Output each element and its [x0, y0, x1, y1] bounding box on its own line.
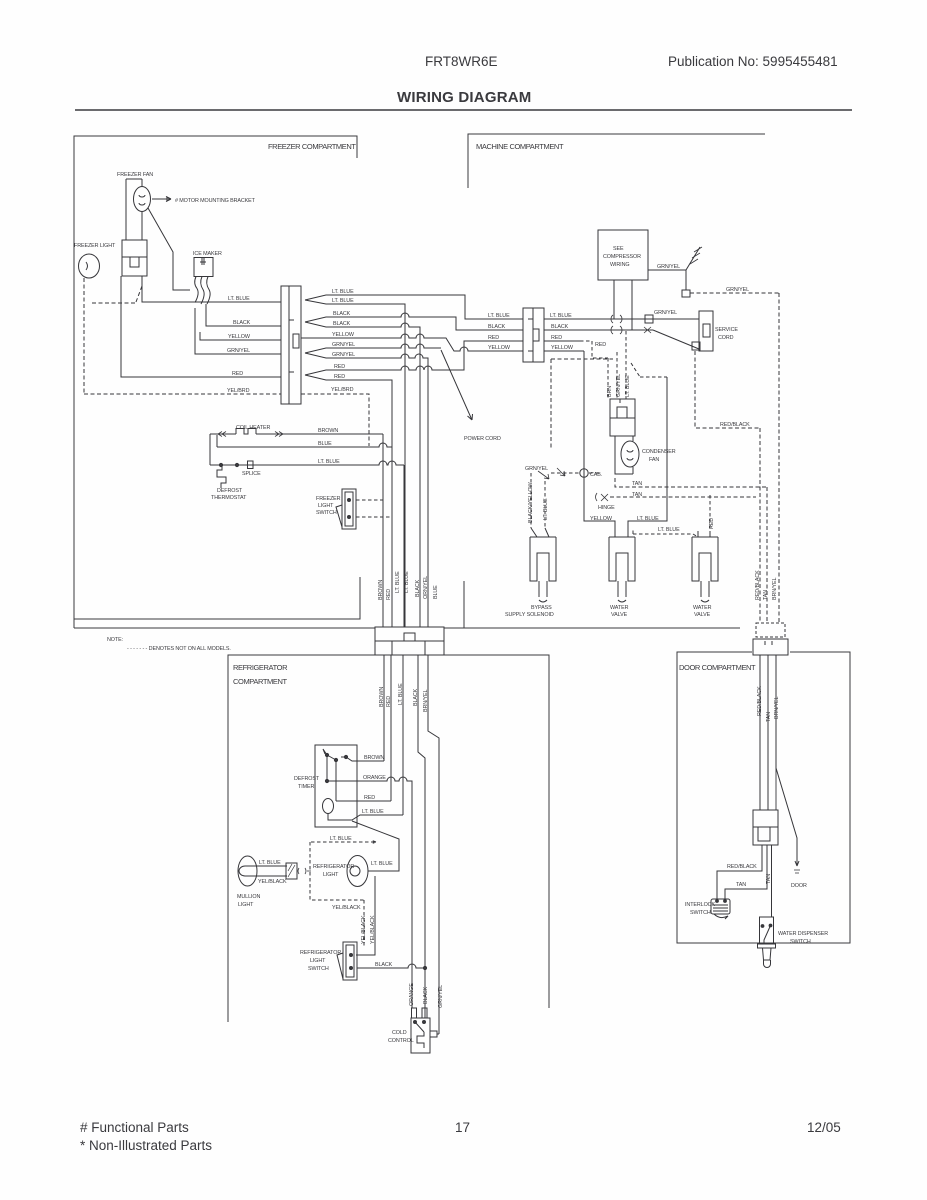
machine compartment box: [444, 134, 765, 628]
svg-text:BLACK: BLACK: [488, 324, 506, 330]
splice S1: [248, 461, 254, 469]
wire freezer light dashed to lt.blue: [92, 286, 142, 303]
wire red 1 riser to machine connector: [305, 341, 523, 375]
svg-text:BLACK: BLACK: [415, 579, 421, 597]
wire brn/yel to mid connector: [775, 768, 777, 810]
wire lt.blue bus freezer: [142, 276, 281, 302]
svg-text:RED: RED: [551, 335, 562, 341]
svg-text:LT. BLUE: LT. BLUE: [404, 571, 410, 593]
wire tan door drop: [767, 655, 769, 810]
refrigerator light switch SW2: [343, 942, 357, 980]
svg-text:BROWN: BROWN: [364, 755, 384, 761]
ice maker block: [194, 258, 213, 277]
wire ground drop: [685, 270, 687, 290]
svg-text:CORD: CORD: [718, 335, 734, 341]
svg-text:WATER: WATER: [610, 605, 629, 611]
wire compressor leads: [614, 280, 632, 330]
svg-text:BLACK: BLACK: [413, 688, 419, 706]
refrigerator compartment box: [228, 655, 549, 1022]
wire lt.blue dashed to timer: [625, 331, 627, 399]
svg-text:BROWN: BROWN: [318, 428, 338, 434]
freezer compartment box: [74, 136, 375, 628]
svg-text:RED: RED: [709, 518, 715, 529]
svg-text:BLACK: BLACK: [375, 962, 393, 968]
svg-text:YELLOW: YELLOW: [332, 332, 355, 338]
wire red drop refrigerator: [390, 655, 392, 801]
door connector J4: [753, 639, 788, 655]
wire brown drop from coil: [382, 434, 384, 627]
svg-text:SUPPLY SOLENOID: SUPPLY SOLENOID: [505, 612, 554, 618]
svg-text:LT. BLUE: LT. BLUE: [330, 836, 352, 842]
svg-text:SEE: SEE: [613, 246, 624, 252]
water valve 2 coil: [692, 537, 718, 602]
svg-text:YEL/BRD: YEL/BRD: [331, 387, 354, 393]
hinge symbol: [596, 493, 609, 501]
wire grn/yel 2 drop: [305, 353, 428, 627]
wire lt.blue dashed valve3: [633, 528, 698, 537]
svg-text:FREEZER COMPARTMENT: FREEZER COMPARTMENT: [268, 142, 356, 151]
motor mounting bracket pointer: [152, 197, 171, 202]
wire lt.blue drop joins: [403, 465, 405, 627]
wire lt.blue row thermostat: [210, 461, 404, 465]
wire grn/yel compressor ground: [648, 247, 700, 270]
svg-text:TIMER: TIMER: [298, 784, 314, 790]
grn/yel tag connector: [645, 315, 653, 323]
svg-text:ORN/YEL: ORN/YEL: [423, 576, 429, 599]
svg-text:YEL/BRD: YEL/BRD: [227, 388, 250, 394]
svg-text:GRN/YEL: GRN/YEL: [657, 264, 680, 270]
wire bulb dashed link: [298, 868, 311, 874]
svg-text:YELLOW: YELLOW: [488, 345, 511, 351]
svg-text:FRT8WR6E: FRT8WR6E: [425, 54, 498, 69]
wire black drop refrigerator: [418, 655, 425, 1018]
svg-text:CONTROL: CONTROL: [388, 1038, 414, 1044]
svg-text:YEL/BLACK: YEL/BLACK: [332, 905, 361, 911]
timer motor M3: [323, 799, 334, 814]
svg-text:LT. BLUE: LT. BLUE: [318, 459, 340, 465]
freezer light switch SW1: [342, 489, 356, 529]
svg-text:BRN/YEL: BRN/YEL: [772, 578, 778, 600]
wire dashed lt.blue refrigerator light: [310, 842, 364, 948]
svg-text:RED: RED: [334, 364, 345, 370]
svg-text:REFRIGERATOR: REFRIGERATOR: [233, 663, 288, 672]
svg-text:TAN: TAN: [736, 882, 746, 888]
wire lt.blue drop refrigerator: [402, 655, 404, 815]
svg-text:BYPASS: BYPASS: [531, 605, 552, 611]
wire red/black dashed: [695, 351, 760, 623]
compressor wiring box: [598, 230, 648, 280]
svg-text:BRN/YEL: BRN/YEL: [774, 697, 780, 719]
wire coil heater left leg: [210, 434, 217, 465]
svg-text:12/05: 12/05: [807, 1120, 841, 1135]
wire brown drop refrigerator: [383, 655, 385, 761]
svg-text:COMPARTMENT: COMPARTMENT: [233, 677, 287, 686]
svg-text:LIGHT: LIGHT: [310, 958, 326, 964]
svg-text:TAN: TAN: [632, 481, 642, 487]
svg-text:RED: RED: [232, 371, 243, 377]
svg-text:BLACK: BLACK: [551, 324, 569, 330]
svg-text:GRN/YEL: GRN/YEL: [227, 348, 250, 354]
header rule: [75, 109, 852, 111]
wire lt.blue dashed valve1: [544, 481, 546, 528]
svg-text:# MOTOR MOUNTING BRACKET: # MOTOR MOUNTING BRACKET: [175, 198, 256, 204]
wire tan to interlock: [725, 845, 767, 899]
water valve 1 coil: [609, 537, 635, 602]
svg-text:LT. BLUE: LT. BLUE: [332, 289, 354, 295]
splice X marks: [611, 326, 651, 334]
svg-text:RED/BLACK: RED/BLACK: [727, 864, 757, 870]
wire tan 1 dashed: [615, 478, 767, 623]
svg-text:BLACK: BLACK: [423, 986, 429, 1004]
interlock switch SW3: [711, 899, 730, 914]
svg-text:YEL/BLACK: YEL/BLACK: [258, 879, 287, 885]
wire yel/black from bulb: [356, 876, 375, 955]
mullion light bulb: [238, 856, 257, 886]
svg-text:- - - - - - - DENOTES NOT ON: - - - - - - - DENOTES NOT ON ALL MODELS.: [127, 646, 231, 652]
door mid connector J5: [753, 810, 778, 845]
svg-text:GRN/YEL: GRN/YEL: [332, 342, 355, 348]
terminal block J3: [375, 627, 444, 655]
refrigerator light bulb L2: [347, 856, 368, 887]
svg-text:RED/BLACK: RED/BLACK: [755, 570, 761, 600]
power cord pointer: [441, 350, 473, 420]
svg-text:SPLICE: SPLICE: [242, 471, 261, 477]
svg-text:RED: RED: [595, 342, 606, 348]
svg-text:RED: RED: [386, 696, 392, 707]
svg-text:Publication No: 5995455481: Publication No: 5995455481: [668, 54, 838, 69]
svg-text:RED: RED: [386, 589, 392, 600]
svg-text:LIGHT: LIGHT: [318, 503, 334, 509]
door compartment box: [677, 652, 850, 943]
svg-text:ORANGE: ORANGE: [363, 775, 386, 781]
svg-text:YEL/BLACK: YEL/BLACK: [361, 915, 367, 944]
svg-text:COLD: COLD: [392, 1030, 407, 1036]
svg-text:SERVICE: SERVICE: [715, 327, 738, 333]
wire grn/yel dashed to timer: [616, 352, 618, 399]
wire black/yellow dashed valve1: [530, 473, 532, 528]
svg-text:CAB.: CAB.: [590, 472, 602, 478]
svg-text:RED: RED: [488, 335, 499, 341]
connector J2 machine: [523, 308, 544, 362]
wire black 1 to machine connector: [305, 313, 523, 330]
svg-text:LIGHT: LIGHT: [238, 902, 254, 908]
svg-text:LT. BLUE: LT. BLUE: [395, 571, 401, 593]
svg-text:DOOR: DOOR: [791, 883, 807, 889]
wire grn/yel 1 to power cord junction: [305, 344, 441, 353]
wire brn/yel drop refrigerator: [428, 655, 439, 1034]
wire red dashed valve3: [709, 495, 711, 537]
svg-text:LT. BLUE: LT. BLUE: [371, 861, 393, 867]
svg-text:TAN: TAN: [763, 590, 769, 600]
wire yellow down left rail: [584, 351, 615, 537]
wire door ground diagonal: [776, 768, 799, 866]
wire red from timer: [336, 761, 391, 801]
dashed region outline: [551, 359, 613, 449]
wire brn/yel to dispenser: [771, 845, 773, 917]
svg-text:GRN/YEL: GRN/YEL: [654, 310, 677, 316]
freezer fan motor M1: [134, 187, 151, 212]
svg-text:COIL HEATER: COIL HEATER: [236, 425, 270, 431]
svg-text:REFRIGERATOR: REFRIGERATOR: [313, 864, 354, 870]
wire pins valve3: [698, 531, 710, 537]
svg-text:WIRING DIAGRAM: WIRING DIAGRAM: [397, 89, 531, 106]
svg-text:BLUE: BLUE: [318, 441, 332, 447]
dashed rail top links: [631, 363, 667, 377]
defrost timer machine box: [610, 399, 635, 436]
svg-text:RED: RED: [334, 374, 345, 380]
svg-text:DEFROST: DEFROST: [217, 488, 243, 494]
svg-text:SWITCH: SWITCH: [316, 510, 337, 516]
svg-text:YEL/BLACK: YEL/BLACK: [370, 915, 376, 944]
wire orange from timer: [327, 756, 412, 1008]
wire lt.blue dashed annotation: [311, 840, 376, 844]
svg-text:DOOR COMPARTMENT: DOOR COMPARTMENT: [679, 663, 756, 672]
svg-text:BLACK: BLACK: [233, 320, 251, 326]
svg-text:BLACK/YELLOW: BLACK/YELLOW: [528, 482, 534, 523]
svg-text:YELLOW: YELLOW: [551, 345, 574, 351]
svg-text:BROWN: BROWN: [379, 687, 385, 707]
ice maker switch pins: [195, 277, 210, 305]
svg-text:YELLOW: YELLOW: [590, 516, 613, 522]
wire yellow bus machine: [544, 350, 584, 352]
svg-text:LT. BLUE: LT. BLUE: [550, 313, 572, 319]
ground lug connector: [682, 290, 690, 297]
svg-text:BRN/YEL: BRN/YEL: [423, 690, 429, 712]
wire grn/yel bus freezer: [195, 308, 281, 354]
wire lt.blue bus machine: [544, 318, 699, 320]
wire grn/yel dashed to door: [690, 293, 779, 623]
wire yel/brd dashed bus freezer: [84, 393, 281, 395]
junction dots thermostat: [219, 463, 222, 466]
svg-text:ICE MAKER: ICE MAKER: [193, 251, 222, 257]
svg-text:FREEZER: FREEZER: [316, 496, 341, 502]
svg-text:TAN: TAN: [766, 874, 772, 884]
wire red/black to interlock: [717, 845, 762, 899]
wire brn dashed to timer: [607, 358, 609, 399]
svg-text:GRN/YEL: GRN/YEL: [525, 466, 548, 472]
svg-text:LT. BLUE: LT. BLUE: [398, 683, 404, 705]
svg-text:NOTE:: NOTE:: [107, 637, 123, 643]
svg-text:LT. BLUE: LT. BLUE: [625, 375, 631, 397]
svg-text:FAN: FAN: [649, 457, 659, 463]
svg-text:LT. BLUE: LT. BLUE: [637, 516, 659, 522]
svg-text:HINGE: HINGE: [598, 505, 615, 511]
defrost thermostat: [217, 465, 226, 488]
wire freezer light dashed drop to yel/brd: [83, 278, 85, 394]
grn/yel arrow dashed valve1: [538, 468, 565, 479]
inline connector marks lt.blue: [611, 315, 622, 323]
svg-text:LT. BLUE: LT. BLUE: [332, 298, 354, 304]
svg-text:TAN: TAN: [766, 712, 772, 722]
svg-text:BLUE: BLUE: [433, 585, 439, 599]
wire red bus machine dashed tap: [544, 340, 580, 342]
svg-text:TAN: TAN: [632, 492, 642, 498]
svg-text:CONDENSER: CONDENSER: [642, 449, 676, 455]
wire right rail lt.blue: [628, 377, 667, 537]
svg-text:RED/BLACK: RED/BLACK: [757, 686, 763, 716]
wire yellow bus freezer: [200, 332, 281, 340]
svg-text:INTERLOCK: INTERLOCK: [685, 902, 715, 908]
svg-text:THERMOSTAT: THERMOSTAT: [211, 495, 247, 501]
coil heater element: [210, 429, 383, 435]
wire red 2 drop: [305, 375, 392, 627]
svg-text:SWITCH: SWITCH: [308, 966, 329, 972]
svg-text:GRN/YEL: GRN/YEL: [616, 374, 622, 397]
wire brown from timer: [346, 757, 384, 761]
svg-text:SWITCH: SWITCH: [790, 939, 811, 945]
svg-text:ORANGE: ORANGE: [409, 983, 415, 1006]
wire red/black door drop: [759, 655, 761, 810]
svg-text:LIGHT: LIGHT: [323, 872, 339, 878]
wire lt.blue from timer motor: [328, 813, 403, 820]
freezer fan/light assembly block: [122, 240, 147, 276]
svg-text:17: 17: [455, 1120, 470, 1135]
service cord plug P1: [699, 311, 713, 351]
svg-text:COMPRESSOR: COMPRESSOR: [603, 254, 641, 260]
wire blue row: [217, 443, 392, 447]
svg-text:REFRIGERATOR: REFRIGERATOR: [300, 950, 341, 956]
svg-text:GRN/YEL: GRN/YEL: [438, 985, 444, 1008]
svg-text:RED/BLACK: RED/BLACK: [720, 422, 750, 428]
svg-text:LT. BLUE: LT. BLUE: [228, 296, 250, 302]
wire brn/yel door drop: [775, 655, 777, 768]
svg-text:MACHINE COMPARTMENT: MACHINE COMPARTMENT: [476, 142, 564, 151]
connector J1 freezer main: [281, 286, 301, 404]
svg-text:LT. BLUE: LT. BLUE: [658, 527, 680, 533]
chassis ground hash marks: [690, 247, 702, 264]
svg-text:BLACK: BLACK: [333, 321, 351, 327]
svg-text:LT. BLUE: LT. BLUE: [488, 313, 510, 319]
wire tan 2 dashed: [610, 496, 756, 498]
svg-text:GRN/YEL: GRN/YEL: [726, 287, 749, 293]
svg-text:DEFROST: DEFROST: [294, 776, 320, 782]
svg-text:* Non-Illustrated Parts: * Non-Illustrated Parts: [80, 1138, 212, 1153]
svg-text:BRN: BRN: [607, 386, 613, 397]
svg-text:BLACK: BLACK: [333, 311, 351, 317]
svg-text:YELLOW: YELLOW: [228, 334, 251, 340]
wire switch dashed taps: [356, 500, 392, 517]
wire black bus machine: [544, 330, 699, 349]
wire lt.blue 2 drop: [305, 300, 405, 627]
svg-text:WIRING: WIRING: [610, 262, 629, 268]
svg-text:LT. BLUE: LT. BLUE: [362, 809, 384, 815]
cold control CC1: [411, 1018, 430, 1053]
svg-text:GRN/YEL: GRN/YEL: [332, 352, 355, 358]
svg-text:POWER CORD: POWER CORD: [464, 436, 501, 442]
defrost timer T1 box: [315, 745, 357, 827]
wire black bus freezer: [206, 304, 281, 326]
wire lt.blue 1 to machine connector: [305, 295, 523, 319]
condenser fan motor M2: [621, 441, 639, 467]
wire red bus freezer: [121, 276, 281, 377]
timer contacts: [325, 753, 328, 756]
wire black 2 drop: [305, 322, 420, 627]
wire yellow to machine connector: [301, 334, 523, 351]
wire black from switch: [357, 964, 425, 968]
svg-text:LT. BLUE: LT. BLUE: [259, 860, 281, 866]
svg-text:FREEZER FAN: FREEZER FAN: [117, 172, 153, 178]
svg-text:RED: RED: [364, 795, 375, 801]
svg-text:# Functional Parts: # Functional Parts: [80, 1120, 189, 1135]
wire lt.blue diagonal to light: [352, 821, 399, 871]
water dispenser switch SW4: [760, 917, 774, 944]
svg-text:WATER DISPENSER: WATER DISPENSER: [778, 931, 828, 937]
svg-text:FREEZER LIGHT: FREEZER LIGHT: [74, 243, 116, 249]
svg-text:VALVE: VALVE: [611, 612, 628, 618]
freezer light L1: [79, 254, 100, 278]
cabinet ground eyelet: [580, 469, 588, 477]
wire fan diagonal to ice maker switch: [148, 208, 190, 290]
bypass supply solenoid coil: [530, 528, 556, 602]
condenser fan column: [615, 436, 633, 474]
svg-text:BROWN: BROWN: [378, 580, 384, 600]
door connector J4 dashed shell: [756, 623, 785, 637]
svg-text:WATER: WATER: [693, 605, 712, 611]
svg-text:SWITCH: SWITCH: [690, 910, 711, 916]
svg-text:VALVE: VALVE: [694, 612, 711, 618]
svg-text:MULLION: MULLION: [237, 894, 260, 900]
wire yel/brd dashed right: [301, 394, 369, 446]
svg-text:LT. BLUE: LT. BLUE: [543, 498, 549, 520]
wire fan leads: [126, 179, 142, 240]
